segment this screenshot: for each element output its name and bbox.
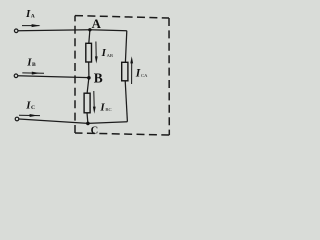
svg-text:BC: BC: [105, 107, 111, 112]
impedance Z_CA: [122, 62, 128, 81]
wire: AB impedance to node B: [88, 62, 90, 78]
svg-text:C: C: [91, 125, 99, 136]
svg-text:I: I: [135, 68, 141, 80]
wire: node B to BC impedance: [87, 78, 89, 94]
svg-text:C: C: [31, 105, 35, 111]
wire: node A to top-right corner: [90, 29, 127, 32]
svg-text:AB: AB: [107, 53, 113, 58]
terminal C: [15, 117, 19, 121]
wire: CA impedance down to bottom corner: [125, 81, 127, 122]
impedance Z_AB: [86, 43, 92, 62]
wire: phase A lead: [18, 30, 90, 31]
wire: node A to AB impedance: [89, 30, 90, 44]
terminal A: [14, 29, 18, 33]
terminal B: [14, 74, 18, 78]
node A junction dot: [88, 28, 91, 31]
wire: corner down to CA impedance: [125, 31, 126, 63]
wire: phase C lead: [19, 119, 88, 123]
current arrow I_AB (down): [95, 42, 98, 64]
current arrow I_A: [22, 24, 40, 27]
svg-text:B: B: [32, 62, 36, 68]
dashed enclosure (delta load box): [75, 16, 169, 135]
current arrow I_B: [22, 72, 44, 75]
node B junction dot: [87, 76, 91, 80]
current arrow I_CA (up): [130, 56, 133, 84]
wire: BC impedance to node C: [86, 113, 89, 124]
svg-text:CA: CA: [141, 73, 148, 78]
svg-text:B: B: [94, 71, 103, 86]
node C junction dot: [86, 122, 90, 126]
wire: bottom corner to node C: [88, 122, 128, 124]
current arrow I_BC (down): [93, 91, 96, 114]
impedance Z_BC: [84, 93, 90, 113]
svg-text:A: A: [92, 17, 102, 31]
current arrow I_C: [19, 114, 40, 117]
wire: phase B lead: [18, 76, 89, 78]
svg-text:A: A: [31, 14, 35, 20]
